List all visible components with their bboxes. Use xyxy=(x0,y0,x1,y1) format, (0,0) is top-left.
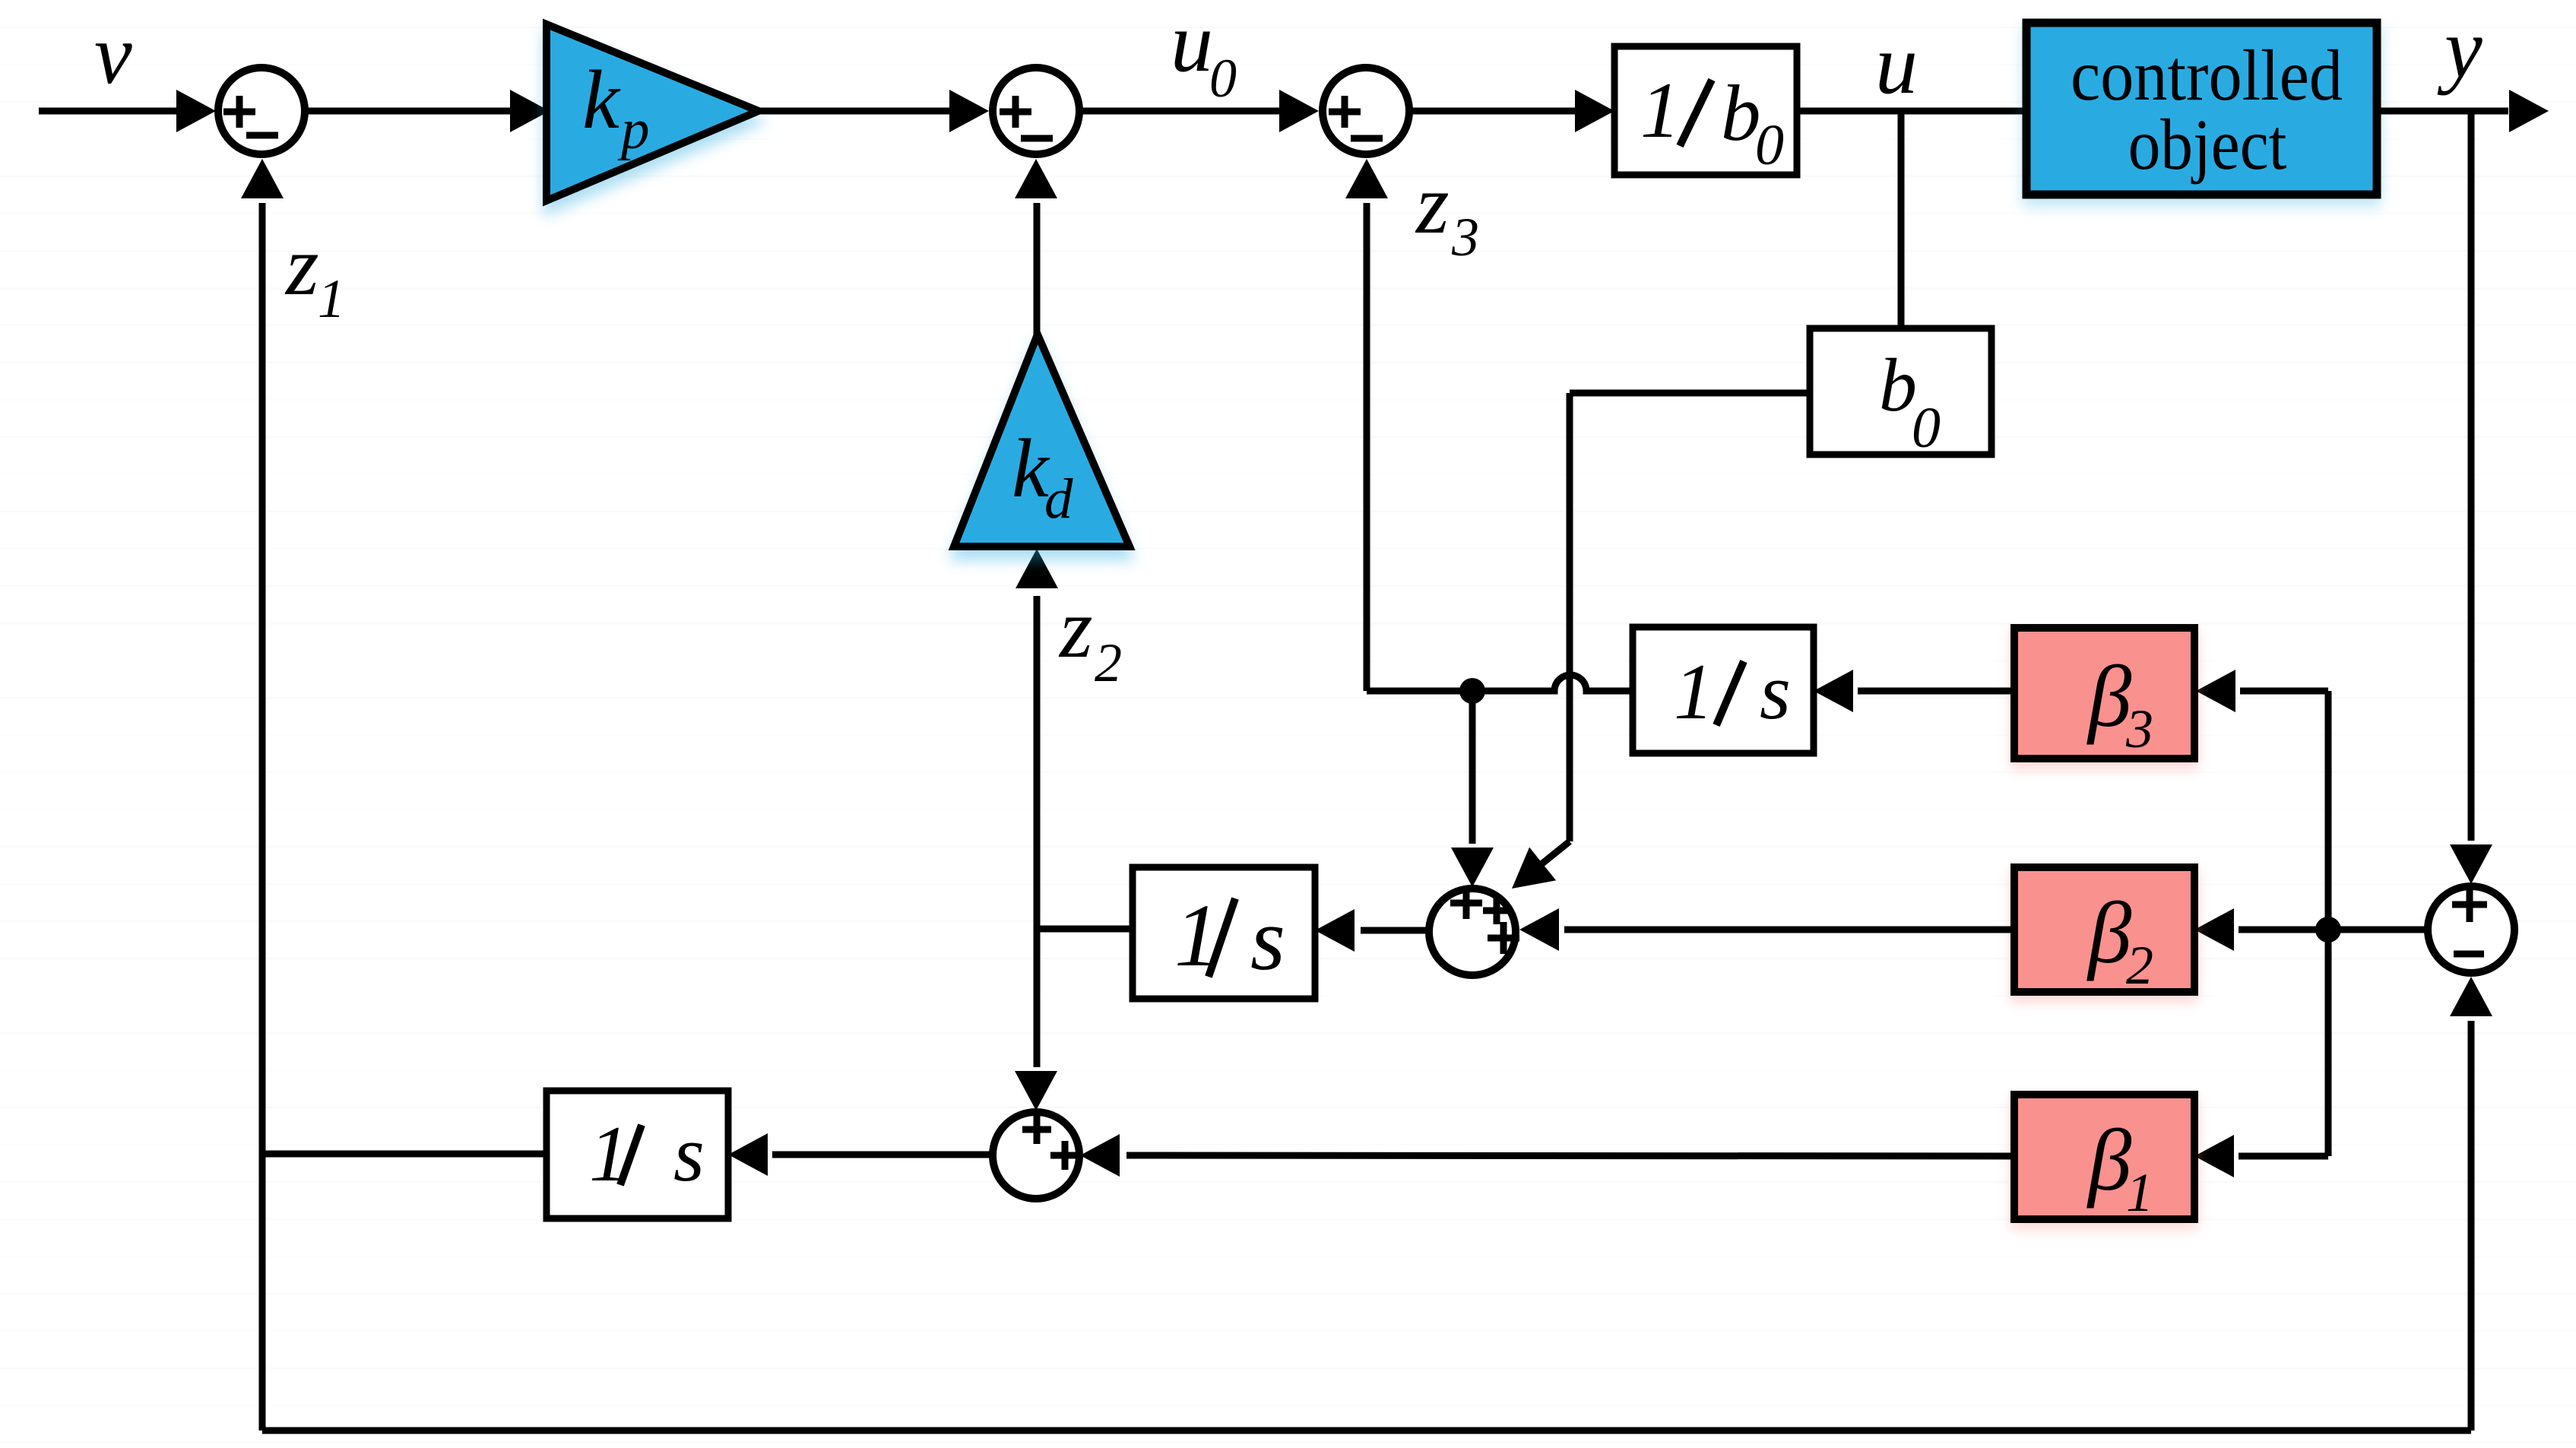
svg-text:β: β xyxy=(2086,885,2132,981)
svg-text:β: β xyxy=(2086,1112,2132,1209)
svg-text:y: y xyxy=(2437,2,2483,96)
svg-text:v: v xyxy=(94,8,132,102)
svg-text:s: s xyxy=(673,1109,705,1198)
svg-text:2: 2 xyxy=(1095,632,1122,693)
svg-text:d: d xyxy=(1044,467,1073,531)
svg-text:1: 1 xyxy=(318,268,345,329)
svg-text:0: 0 xyxy=(1755,113,1784,177)
svg-text:3: 3 xyxy=(2125,699,2153,759)
svg-text:0: 0 xyxy=(1912,396,1941,460)
svg-text:s: s xyxy=(1760,647,1791,736)
svg-text:3: 3 xyxy=(1451,207,1479,268)
svg-text:1: 1 xyxy=(1640,65,1681,154)
svg-text:z: z xyxy=(1415,157,1450,252)
svg-text:s: s xyxy=(1250,889,1285,989)
svg-text:z: z xyxy=(1058,581,1093,676)
svg-text:0: 0 xyxy=(1209,48,1237,109)
svg-text:u: u xyxy=(1171,0,1213,90)
svg-text:p: p xyxy=(617,98,650,161)
svg-text:2: 2 xyxy=(2126,935,2153,996)
svg-text:z: z xyxy=(284,219,319,313)
svg-text:u: u xyxy=(1875,17,1918,112)
svg-text:object: object xyxy=(2128,104,2287,185)
svg-text:k: k xyxy=(582,53,621,146)
svg-text:1: 1 xyxy=(2126,1162,2153,1223)
svg-text:β: β xyxy=(2086,648,2132,745)
svg-text:1: 1 xyxy=(1674,647,1714,736)
